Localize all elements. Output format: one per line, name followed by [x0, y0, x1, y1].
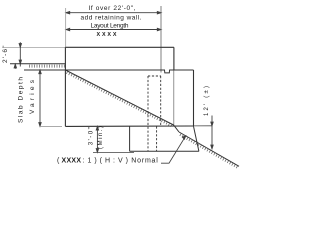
deck right edge	[173, 47, 175, 70]
footing left edge	[129, 126, 131, 151]
hidden backwall line 1 (dashed)	[147, 76, 149, 151]
svg-text:Layout Length: Layout Length	[91, 23, 129, 30]
slope jog at junction	[174, 125, 179, 132]
slope hatch ticks (upper)	[66, 71, 172, 127]
lower slope line	[179, 132, 239, 166]
slope hatch ticks (lower)	[180, 133, 238, 168]
footing bottom	[130, 150, 199, 152]
svg-text:3'-0": 3'-0"	[88, 127, 95, 145]
dim 12' (x=212)	[211, 116, 213, 149]
ground line A	[10, 63, 65, 65]
deck right edge extension down	[173, 70, 175, 125]
footing battered right face	[194, 126, 199, 151]
svg-text:2'-6": 2'-6"	[2, 45, 9, 63]
dimension line: Layout Length	[66, 28, 161, 30]
dimension line: retaining wall limit	[66, 12, 161, 14]
svg-text:If over 22'-0",: If over 22'-0",	[89, 5, 136, 12]
extension line deck top left	[4, 46, 65, 48]
dim 2'-6"	[19, 42, 21, 66]
approach line B + abutment top with bearing notch	[24, 70, 194, 73]
slab bottom	[65, 125, 193, 127]
ground hatch ticks under line A	[30, 65, 65, 68]
hidden top (dashed)	[148, 75, 161, 77]
upper slope line	[65, 70, 173, 125]
slab depth reference arrow below ground line	[14, 64, 16, 69]
svg-text:Slab Depth: Slab Depth	[17, 77, 24, 123]
abutment wall right face	[193, 70, 195, 126]
slab bottom extension left	[40, 125, 62, 127]
extension line left (x=65.7)	[65, 8, 67, 47]
svg-text:Normal: Normal	[131, 158, 158, 165]
extension line right / bearing line (x=161)	[160, 6, 162, 73]
hidden line below slab (dashed)	[156, 126, 158, 151]
dim varies (x=40)	[39, 70, 41, 126]
svg-text:add retaining wall.: add retaining wall.	[81, 15, 142, 22]
deck top	[65, 46, 173, 48]
dim 3'-0" min (x=98)	[93, 126, 134, 152]
svg-text:XXXX: XXXX	[97, 32, 117, 38]
hidden backwall line 2 (dashed)	[160, 76, 162, 126]
leader to slope	[161, 136, 186, 163]
slab bottom extension right to 12' dim	[194, 125, 213, 127]
svg-text::1)(H:V): :1)(H:V)	[83, 158, 129, 165]
deck left edge	[64, 47, 66, 126]
svg-text:XXXX: XXXX	[62, 158, 82, 165]
